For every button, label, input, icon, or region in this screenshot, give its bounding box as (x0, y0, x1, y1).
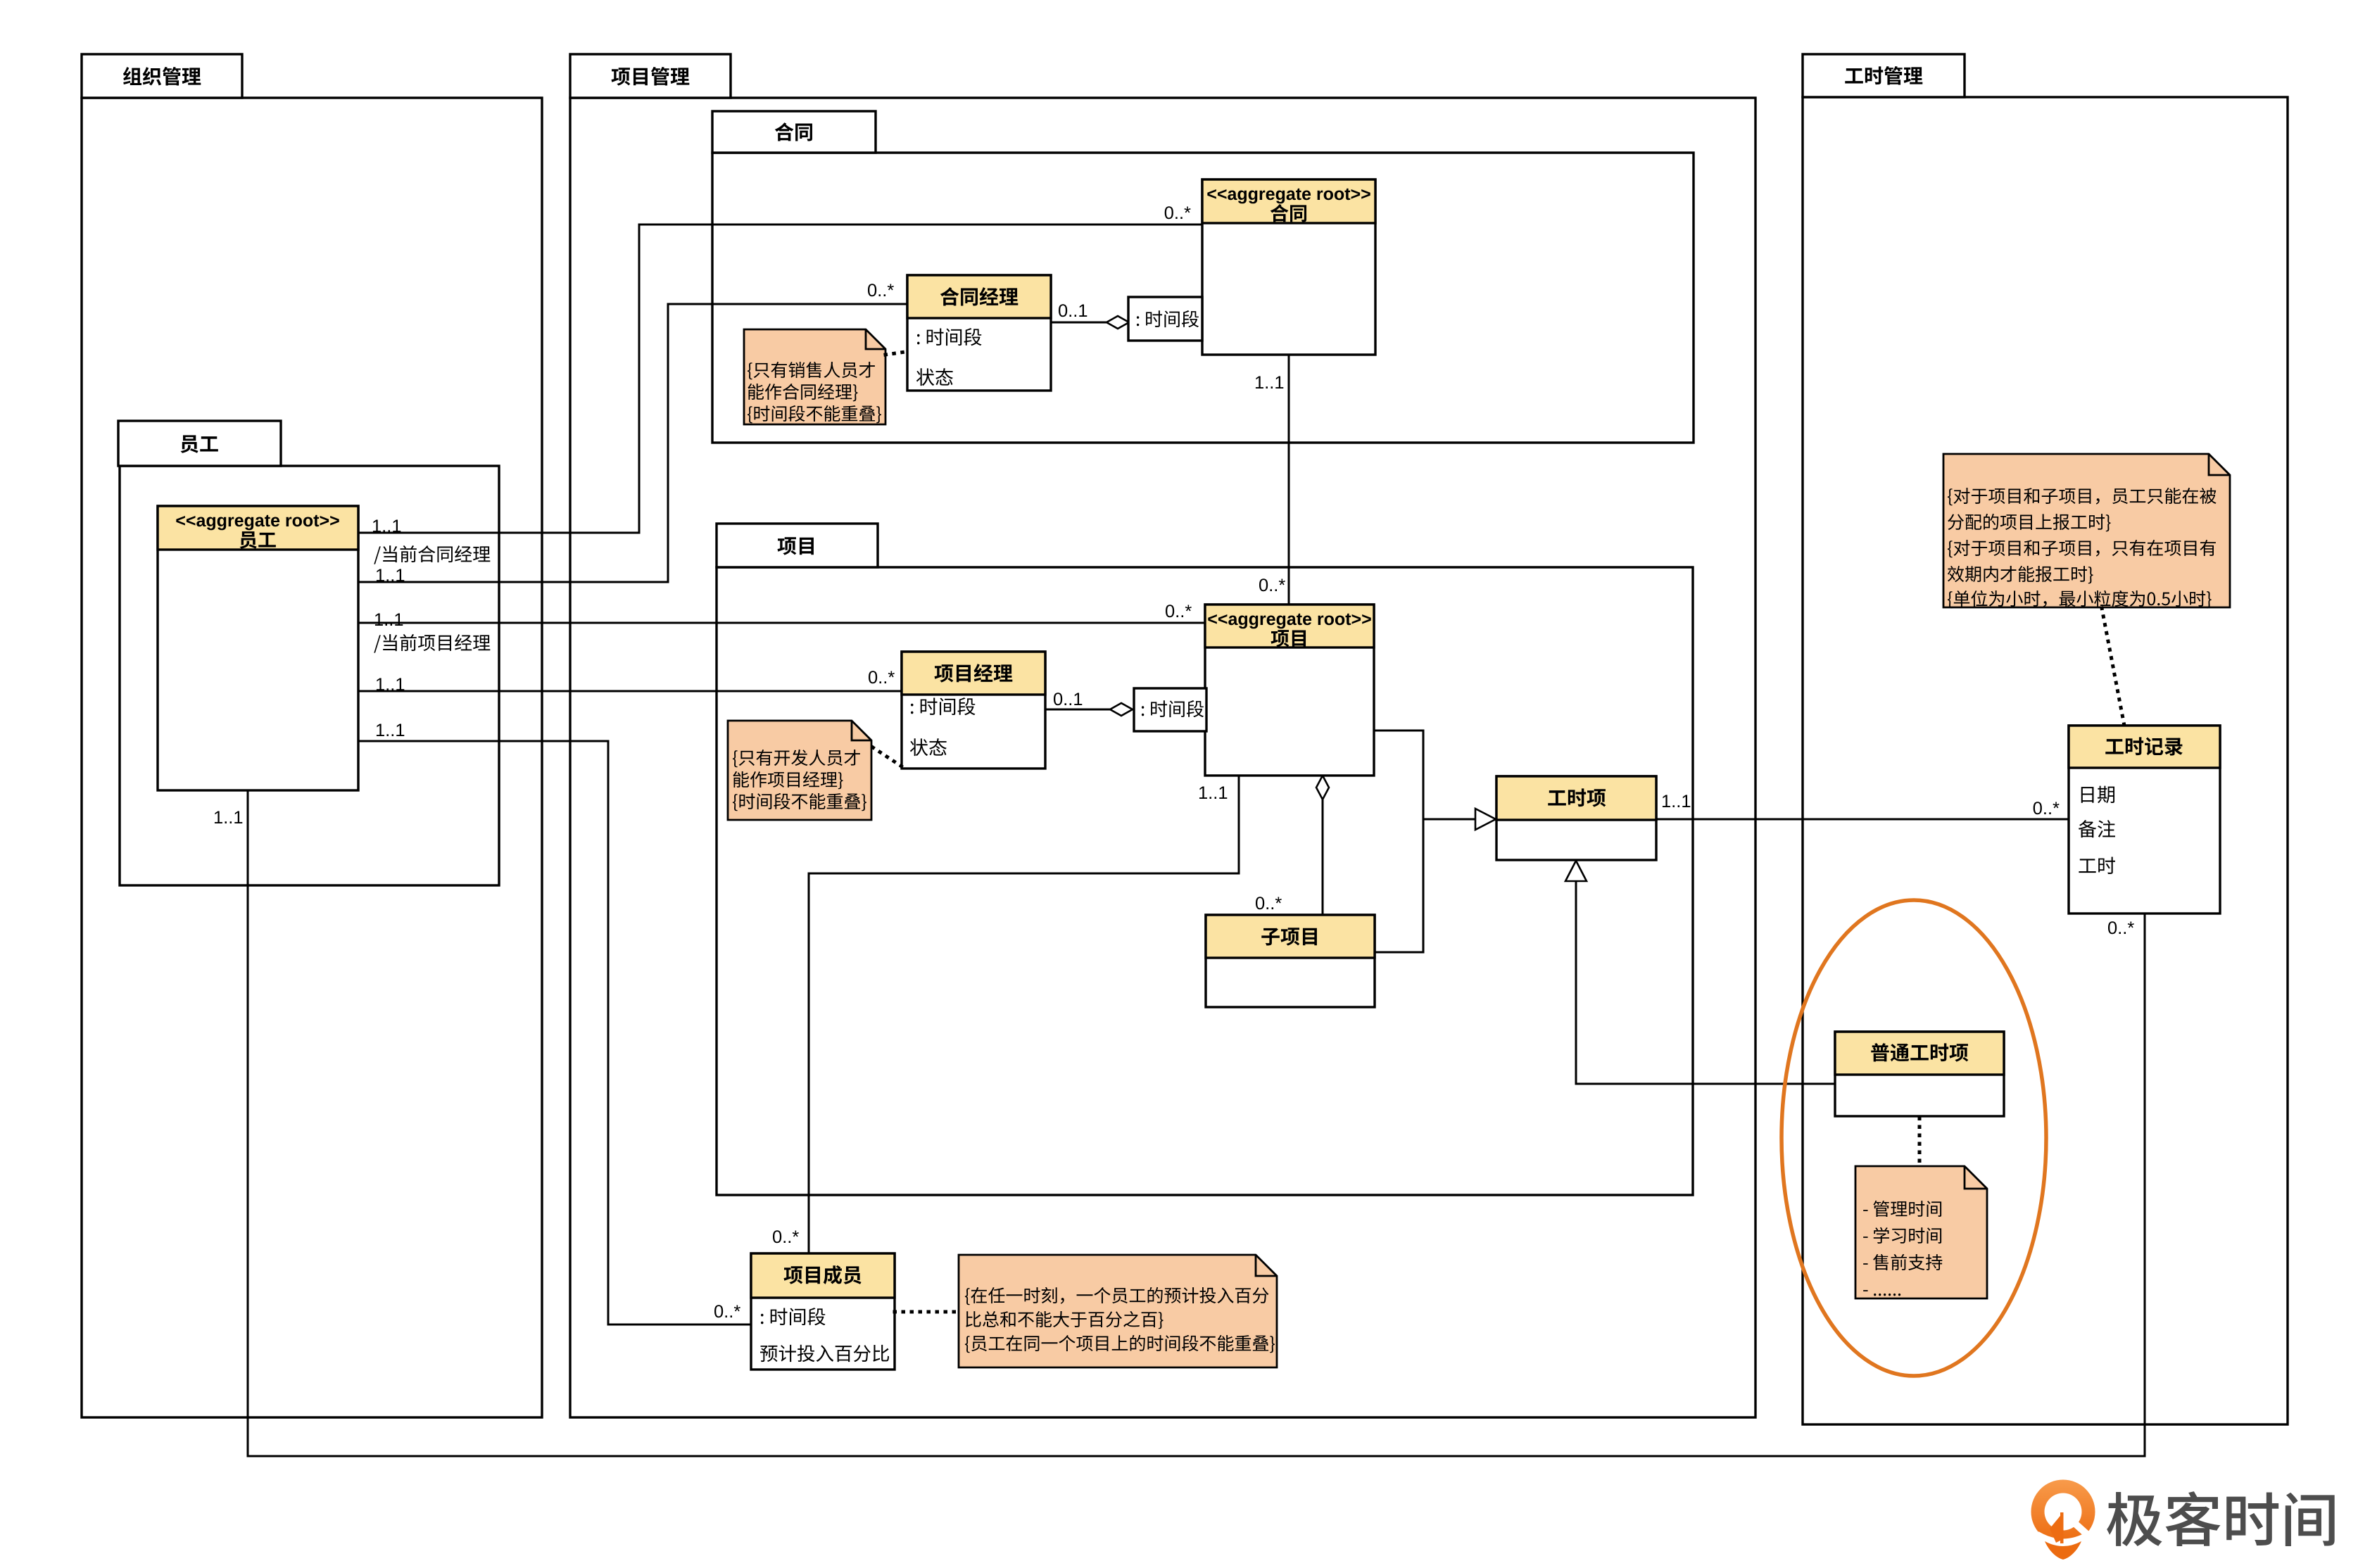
association 员工-工时记录 (248, 790, 2145, 1456)
association class box 时间段 (项目) (1134, 688, 1206, 731)
class 工时项 (1496, 776, 1656, 860)
association 工时项-工时记录 (1656, 818, 2069, 821)
class 项目成员 (751, 1253, 895, 1370)
label 0..* (工时记录端下) (2108, 921, 2134, 934)
label 0..* (项目成员端左) (714, 1305, 740, 1317)
class 员工 aggregate root (158, 506, 358, 790)
aggregation 项目-子项目 (1316, 776, 1329, 915)
package 合同 (712, 111, 1694, 443)
class 合同 aggregate root (1202, 179, 1375, 355)
label 0..* (工时记录端左) (2034, 802, 2060, 814)
aggregation 合同经理-时间段 (1051, 316, 1129, 329)
generalization 普通工时项-工时项 (1565, 861, 1835, 1084)
association 项目-项目成员 (809, 776, 1239, 1253)
package 项目管理 (570, 54, 1755, 1417)
label 0..* (项目成员端上) (773, 1230, 799, 1243)
label 0..* (合同-项目端) (1259, 578, 1285, 591)
note 只有开发人员才能作项目经理 (728, 721, 871, 820)
aggregation 项目经理-时间段 (1045, 703, 1133, 716)
package 员工 (118, 421, 499, 885)
label 0..1 (项目经理-时间段) (1054, 693, 1082, 705)
class 子项目 (1206, 915, 1375, 1007)
generalization 项目/子项目-工时项 (1374, 731, 1496, 952)
label 1..1 (员工-项目) (375, 613, 403, 626)
association 员工-项目成员 (358, 741, 751, 1324)
note link 项目成员 (895, 1310, 959, 1314)
label 1..1 (员工-合同) (373, 519, 401, 532)
label 1..1 (工时项端) (1663, 795, 1690, 807)
note link 工时记录 (2102, 608, 2124, 726)
note 只有销售人员才能作合同经理 (744, 329, 885, 424)
label 0..1 (合同经理-时间段) (1059, 304, 1087, 317)
label 1..1 (合同-项目端) (1256, 376, 1283, 388)
label 0..* (项目端) (1166, 605, 1192, 617)
note 报工时规则 (1943, 454, 2230, 608)
note link 合同经理 (885, 351, 910, 355)
note link 普通工时项 (1918, 1118, 1922, 1166)
class 合同经理 (907, 275, 1051, 391)
association 员工-项目 /当前项目经理 (358, 622, 1205, 624)
note 预计投入百分比规则 (959, 1255, 1277, 1367)
logo text 极客时间 (2107, 1491, 2335, 1546)
label 1..1 (员工-合同经理) (377, 569, 404, 581)
association 员工-项目经理 (358, 690, 902, 693)
label 1..1 (员工-工时记录) (215, 811, 242, 823)
label 1..1 (项目-项目成员端) (1199, 786, 1227, 799)
class 普通工时项 (1835, 1032, 2004, 1116)
class 项目 aggregate root (1205, 605, 1374, 776)
label 0..* (项目经理端) (869, 671, 895, 683)
label 0..* (合同经理端) (868, 284, 894, 296)
label /当前项目经理 (374, 634, 490, 653)
association class box 时间段 (合同) (1128, 297, 1202, 341)
highlight ellipse (1782, 900, 2046, 1376)
package 项目 (717, 524, 1693, 1195)
association 员工-合同经理 (358, 304, 907, 582)
association 员工-合同 /当前合同经理 (358, 225, 1202, 533)
note link 项目经理 (873, 747, 904, 768)
package 组织管理 (82, 54, 542, 1417)
label 1..1 (员工-项目经理) (377, 678, 404, 690)
package 工时管理 (1803, 54, 2288, 1424)
label 1..1 (员工-项目成员) (377, 723, 404, 736)
logo 极客时间 mark (2031, 1480, 2095, 1560)
class 工时记录 (2069, 726, 2220, 913)
note 普通工时项示例 (1855, 1166, 1987, 1298)
class 项目经理 (902, 652, 1045, 769)
label 0..* (项目-子项目端) (1256, 897, 1282, 909)
label /当前合同经理 (374, 545, 490, 564)
association 合同-项目 (1288, 355, 1290, 605)
label 0..* (合同端) (1165, 206, 1191, 219)
